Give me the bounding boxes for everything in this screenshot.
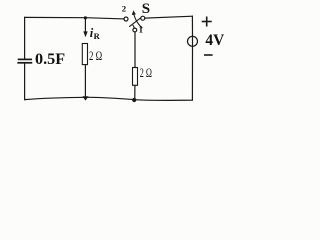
current arrow iR head — [83, 31, 87, 37]
resistor R2 2ohm box — [133, 68, 138, 86]
wire bottom horizontal — [25, 97, 193, 100]
junction node dot top of branch R1 — [84, 16, 87, 19]
capacitor C 0.5F top plate — [19, 58, 32, 60]
svg-text:4V: 4V — [205, 32, 224, 49]
switch S contact right — [141, 16, 145, 20]
switch S blade — [130, 18, 141, 26]
switch S contact bottom (pole) — [133, 28, 137, 32]
wire through source — [192, 36, 194, 46]
wire right border lower — [191, 46, 193, 100]
wire right border upper — [191, 16, 193, 36]
svg-text:0.5F: 0.5F — [35, 50, 65, 68]
svg-text:S: S — [142, 1, 150, 17]
switch S contact left (pos 2) — [124, 17, 128, 21]
wire top-left horizontal — [25, 17, 125, 19]
wire middle branch upper — [84, 18, 86, 32]
label + polarity — [202, 17, 213, 56]
svg-text:2 Ω: 2 Ω — [89, 49, 102, 63]
wire left border upper — [24, 17, 26, 59]
voltage source U 4V circle — [188, 36, 198, 46]
capacitor C 0.5F bottom plate — [18, 62, 31, 64]
svg-text:R: R — [94, 31, 101, 41]
switch S motion arrowhead — [132, 10, 136, 15]
wire middle branch lower — [84, 65, 86, 98]
svg-text:2: 2 — [122, 4, 127, 14]
resistor R1 2ohm box — [82, 44, 87, 65]
junction node dot bottom of switch branch — [132, 98, 136, 102]
svg-text:1: 1 — [139, 25, 144, 35]
svg-text:2 Ω: 2 Ω — [140, 66, 152, 80]
wire left border lower — [24, 63, 26, 99]
wire switch branch upper — [134, 32, 136, 68]
switch S pole stub — [133, 25, 134, 28]
label - polarity — [204, 54, 213, 56]
wire top-right horizontal — [145, 16, 193, 18]
wire switch branch lower — [134, 85, 136, 100]
switch S motion arc — [134, 15, 142, 28]
junction arrowhead bottom of branch R1 — [82, 96, 88, 100]
